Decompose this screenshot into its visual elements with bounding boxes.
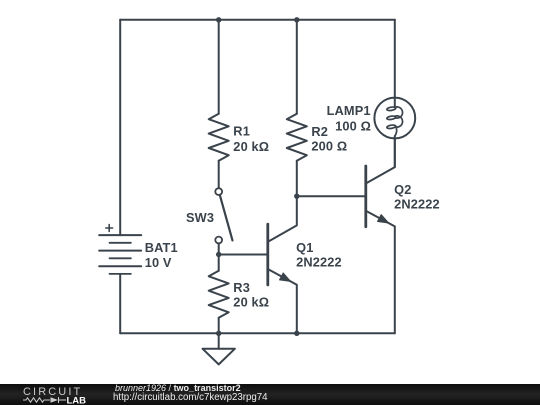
svg-text:100 Ω: 100 Ω	[335, 119, 371, 134]
wire left rail lower	[119, 274, 121, 333]
svg-text:2N2222: 2N2222	[394, 196, 440, 211]
svg-text:2N2222: 2N2222	[296, 254, 342, 269]
CircuitLab logo	[0, 384, 110, 405]
ground	[203, 333, 235, 364]
lamp LAMP1	[374, 20, 415, 167]
resistor R1	[209, 20, 229, 188]
svg-text:LAMP1: LAMP1	[327, 103, 371, 118]
resistor R3	[209, 255, 229, 334]
svg-text:Q1: Q1	[296, 240, 313, 255]
battery BAT1	[99, 225, 141, 274]
wire Q1 base	[219, 254, 267, 256]
resistor R2	[287, 20, 307, 196]
switch SW3	[215, 188, 232, 254]
svg-text:20 kΩ: 20 kΩ	[233, 294, 269, 309]
node top R2	[294, 17, 299, 22]
node Q2 base / R2	[294, 194, 299, 199]
footer url line	[113, 392, 268, 403]
node Q1 emitter	[294, 331, 299, 336]
node top R1	[216, 17, 221, 22]
transistor Q1	[268, 196, 297, 333]
svg-text:20 kΩ: 20 kΩ	[233, 139, 269, 154]
node ground	[216, 331, 221, 336]
wire top rail	[120, 19, 395, 21]
svg-text:200 Ω: 200 Ω	[311, 139, 347, 154]
svg-text:R3: R3	[233, 280, 250, 295]
footer credit line	[115, 383, 241, 393]
svg-text:10 V: 10 V	[145, 255, 172, 270]
wire left rail upper	[119, 20, 121, 235]
node Q1 base / R3	[216, 252, 221, 257]
svg-text:R1: R1	[233, 123, 250, 138]
svg-text:SW3: SW3	[186, 210, 214, 225]
wire Q2 base	[297, 195, 365, 197]
svg-text:BAT1: BAT1	[145, 240, 178, 255]
svg-text:LAB: LAB	[67, 396, 87, 405]
transistor Q2	[366, 139, 395, 334]
footer bar	[0, 384, 540, 405]
wire bottom rail	[120, 332, 395, 334]
svg-text:Q2: Q2	[394, 182, 411, 197]
svg-text:R2: R2	[311, 124, 328, 139]
